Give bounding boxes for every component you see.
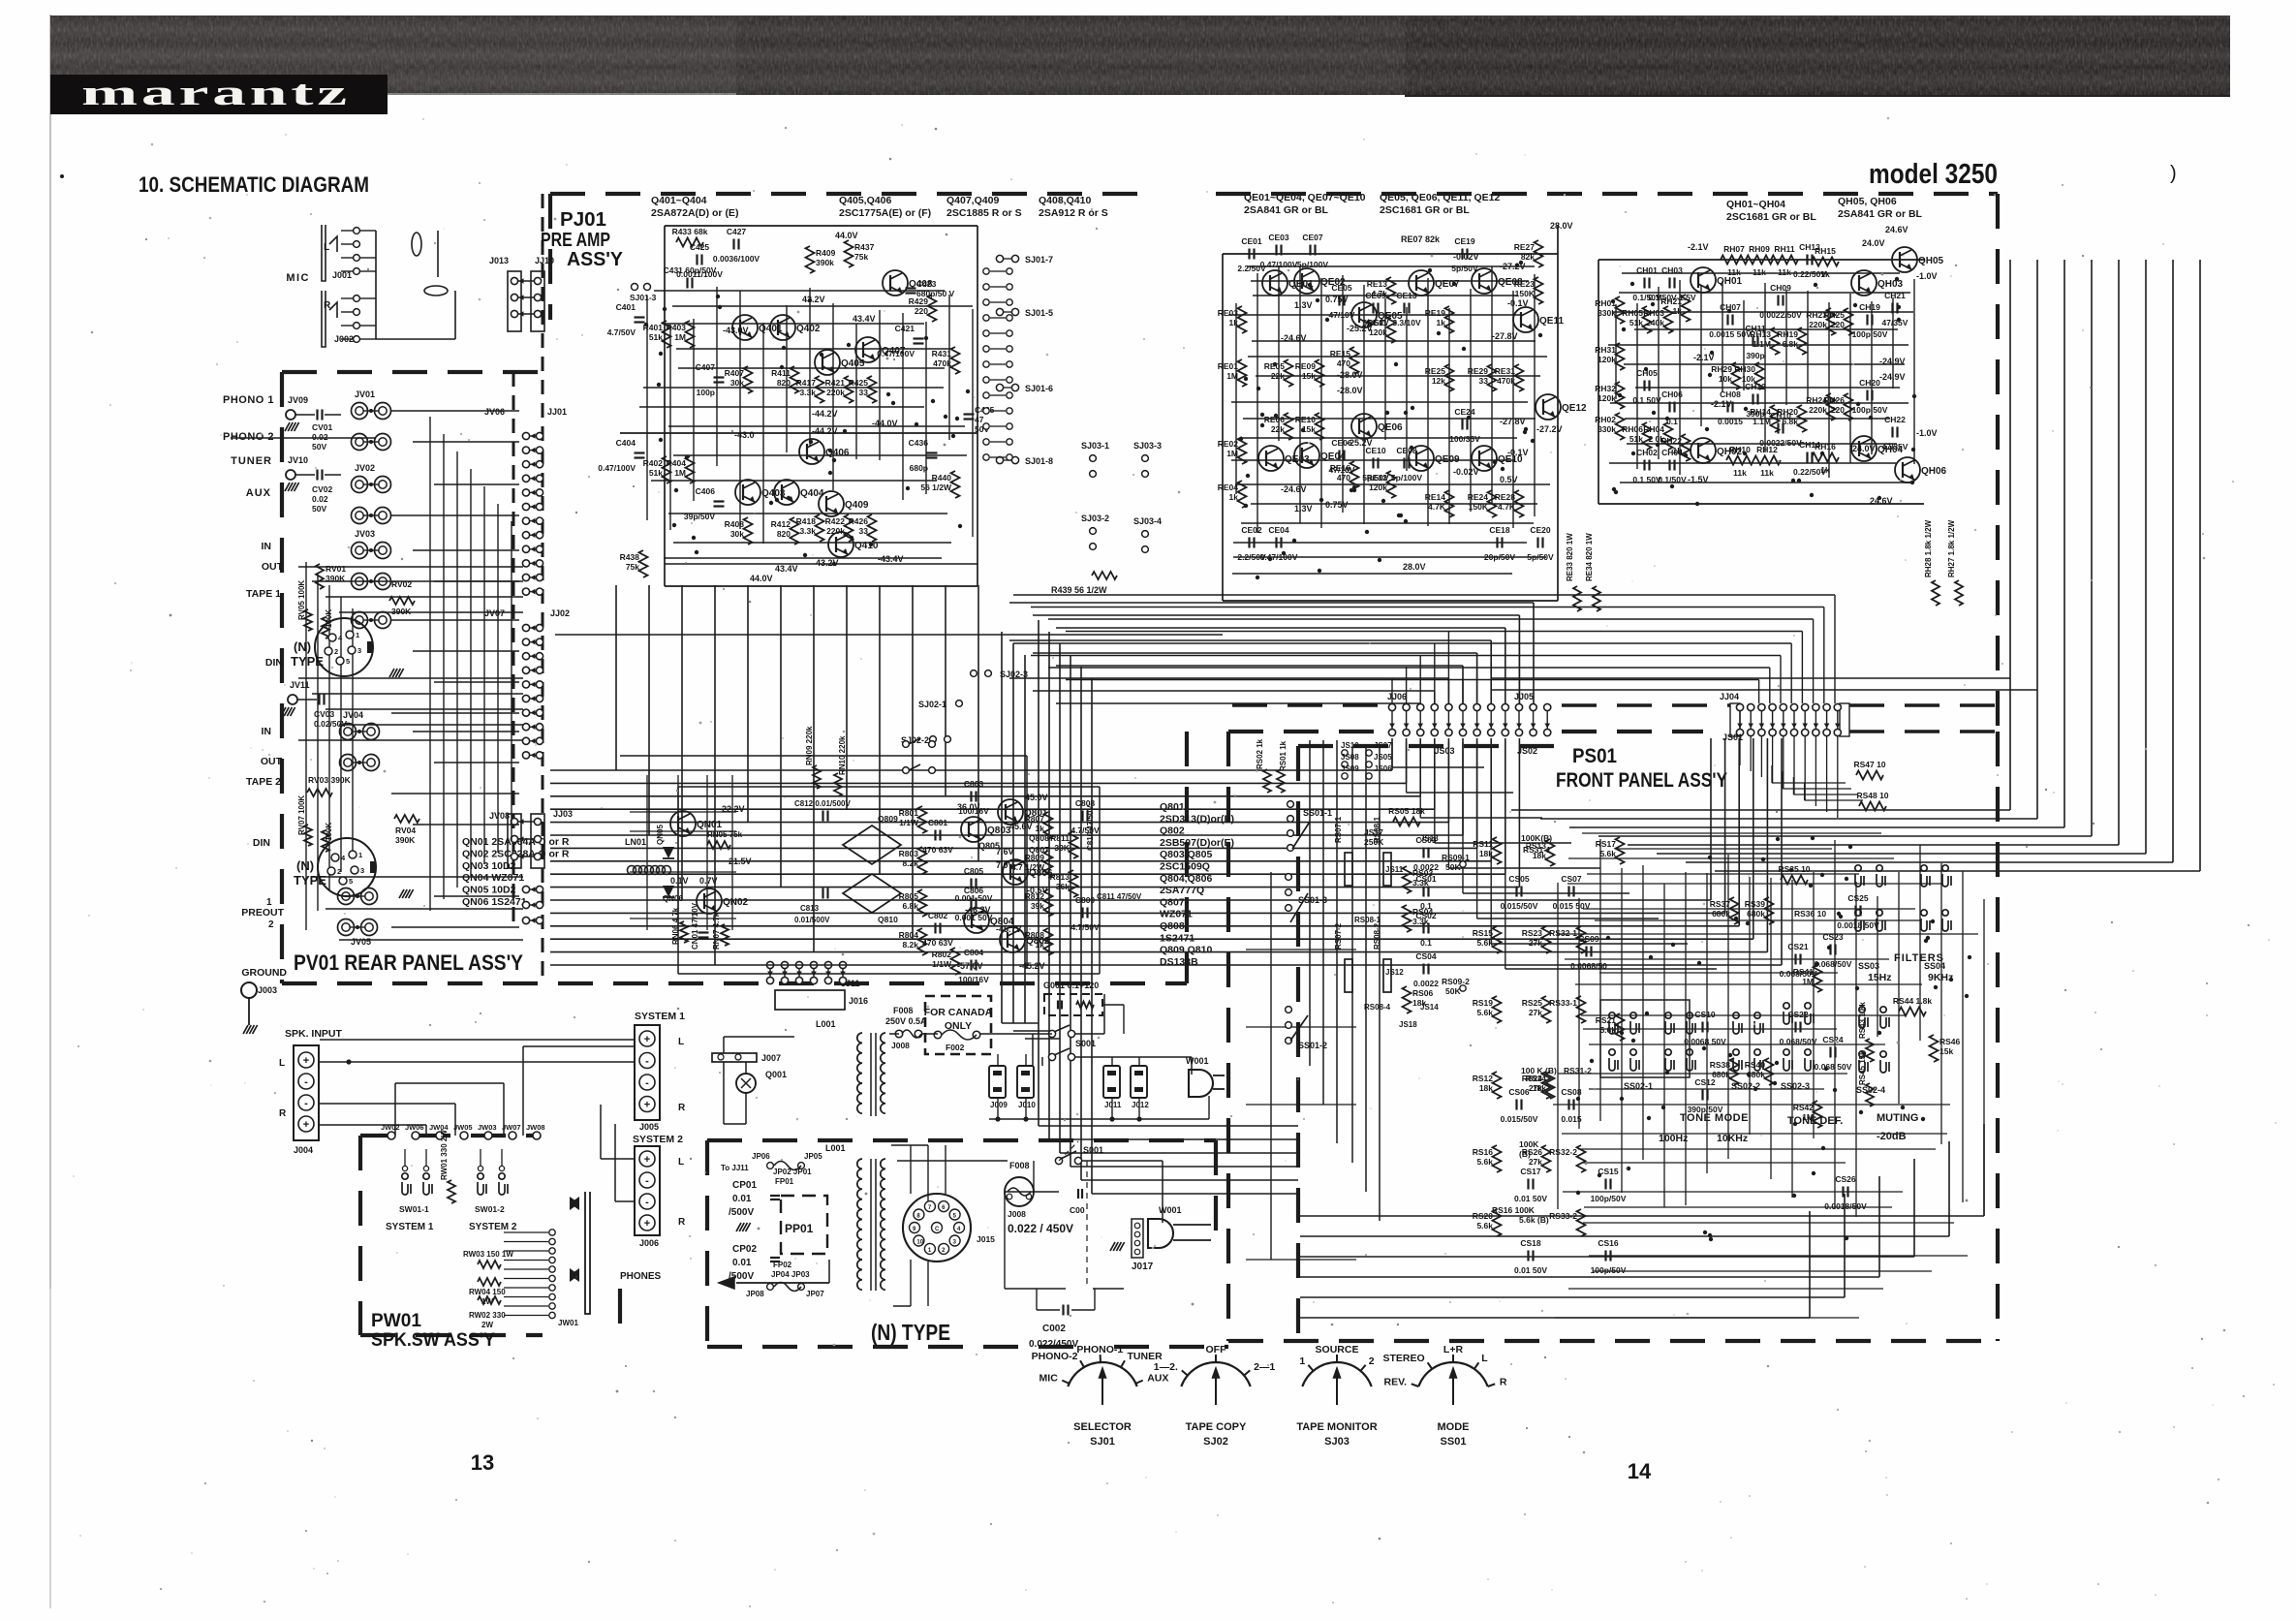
junction xyxy=(1462,347,1466,351)
svg-text:TAPE MONITOR: TAPE MONITOR xyxy=(1296,1421,1377,1433)
wire riser xyxy=(1804,736,1806,800)
svg-text:390p/50V: 390p/50V xyxy=(1688,1105,1723,1114)
junction xyxy=(1282,551,1286,555)
junction xyxy=(1877,1031,1881,1035)
wire xyxy=(312,693,523,695)
wire bus vertical inner xyxy=(1322,740,1324,1105)
svg-text:RN10 220k: RN10 220k xyxy=(838,735,847,775)
svg-text:(N) TYPE: (N) TYPE xyxy=(871,1320,950,1345)
svg-text:5.6k: 5.6k xyxy=(1476,938,1493,948)
junction xyxy=(1897,318,1901,322)
capacitor CE01 xyxy=(1248,249,1250,260)
svg-text:220k: 220k xyxy=(1809,405,1827,415)
svg-text:27k: 27k xyxy=(1529,1157,1542,1167)
supply block outline xyxy=(678,786,1100,788)
svg-text:390K: 390K xyxy=(391,607,412,616)
connector contact pair xyxy=(1502,703,1508,710)
svg-text:RS36 10: RS36 10 xyxy=(1794,909,1826,919)
junction xyxy=(869,543,873,546)
svg-text:1: 1 xyxy=(356,631,359,639)
junction xyxy=(1452,282,1456,286)
junction xyxy=(951,434,955,438)
headphone amp rail xyxy=(1598,259,1924,261)
svg-text:0.22/50V: 0.22/50V xyxy=(1793,467,1826,477)
resistor RS26 xyxy=(1542,1145,1551,1172)
resistor RN05 75k xyxy=(707,841,730,849)
junction xyxy=(1810,493,1814,497)
tape1 resistor RV05 RV06 rotated labels xyxy=(304,609,312,631)
connector contact pair xyxy=(1515,703,1522,710)
wire xyxy=(1706,873,1708,1173)
svg-text:240k: 240k xyxy=(1646,318,1664,327)
wire xyxy=(326,708,523,710)
svg-text:R803: R803 xyxy=(899,849,919,858)
wire xyxy=(1612,311,1913,313)
switch SS01-3 xyxy=(1286,874,1292,881)
svg-text:0.1: 0.1 xyxy=(1420,901,1432,911)
svg-text:-24.6V: -24.6V xyxy=(1281,484,1307,494)
svg-text:FP02: FP02 xyxy=(773,1261,792,1269)
svg-text:QE11: QE11 xyxy=(1539,316,1564,327)
junction xyxy=(716,295,720,298)
bridge rectifier Q809 xyxy=(843,826,901,864)
wire xyxy=(1251,280,1529,282)
wire riser xyxy=(1826,736,1828,812)
svg-text:RS33-2: RS33-2 xyxy=(1549,1211,1577,1221)
resistor RS02 1k rotated xyxy=(1263,769,1271,793)
wire bus xyxy=(1033,652,1477,654)
svg-text:33: 33 xyxy=(859,526,869,536)
svg-text:SYSTEM 1: SYSTEM 1 xyxy=(386,1222,434,1232)
svg-text:0.068 50V: 0.068 50V xyxy=(1815,1062,1852,1072)
svg-text:RS08-4: RS08-4 xyxy=(1364,1003,1391,1012)
svg-text:1: 1 xyxy=(1299,1355,1305,1367)
wire drop JJ06 xyxy=(1490,742,1492,944)
wire xyxy=(391,619,519,621)
junction xyxy=(1656,443,1660,447)
svg-text:RS43 1.8k: RS43 1.8k xyxy=(1858,1002,1867,1039)
PS01 dashed right edge xyxy=(1996,732,2000,1341)
svg-text:C002: C002 xyxy=(1042,1324,1066,1334)
junction xyxy=(1702,1046,1706,1050)
wire xyxy=(391,410,519,412)
junction xyxy=(1365,530,1369,534)
connector contact pair xyxy=(1823,703,1830,710)
svg-text:24.0V: 24.0V xyxy=(1862,238,1885,248)
volume pot RS08-1 xyxy=(1383,853,1391,886)
resistor RS19 xyxy=(1493,996,1502,1023)
junction xyxy=(1897,305,1901,309)
resistor R418 xyxy=(816,514,824,542)
junction xyxy=(1538,333,1542,337)
connector contact pair xyxy=(781,961,788,968)
wire bus long xyxy=(1013,642,1791,644)
wire xyxy=(1583,908,1915,910)
junction xyxy=(1814,283,1817,287)
svg-text:56 1/2W: 56 1/2W xyxy=(920,483,952,492)
resistor RH02 xyxy=(1616,413,1625,440)
svg-text:L001: L001 xyxy=(825,1143,846,1153)
resistor RH15 xyxy=(1812,258,1839,266)
svg-text:MUTING: MUTING xyxy=(1877,1112,1918,1124)
svg-text:J003: J003 xyxy=(258,985,277,995)
ground JO17 xyxy=(1110,1242,1115,1251)
svg-text:PHONO-1: PHONO-1 xyxy=(1076,1344,1123,1355)
junction xyxy=(695,550,698,554)
junction xyxy=(1257,387,1260,390)
resistor RE15 xyxy=(1350,347,1359,374)
svg-text:JV10: JV10 xyxy=(288,455,308,465)
resistor RE04 xyxy=(1238,481,1247,508)
svg-text:Q801: Q801 xyxy=(1160,801,1185,813)
svg-text:100/35V: 100/35V xyxy=(1449,434,1480,444)
svg-text:C802: C802 xyxy=(928,911,948,920)
svg-text:RH28 1.8k 1/2W: RH28 1.8k 1/2W xyxy=(1924,519,1933,577)
wire vertical xyxy=(497,504,499,853)
svg-text:CS06: CS06 xyxy=(1508,1087,1530,1097)
svg-text:JS08: JS08 xyxy=(1341,753,1359,762)
page edge line xyxy=(49,15,51,1289)
switch group SS02-4 xyxy=(1859,1007,1868,1028)
PW01 speaker switch dashed outline xyxy=(358,1136,362,1335)
wire xyxy=(662,323,924,325)
svg-text:0.0036/100V: 0.0036/100V xyxy=(713,254,760,264)
svg-text:R425: R425 xyxy=(849,378,869,388)
svg-text:JW02: JW02 xyxy=(381,1123,400,1132)
connector contact pair xyxy=(1813,703,1819,710)
volume pot RS07-1 xyxy=(1345,853,1352,886)
svg-text:(N): (N) xyxy=(294,639,311,654)
wire xyxy=(809,288,811,447)
resistor R807 xyxy=(1044,812,1053,839)
wire bus long xyxy=(1013,594,1835,596)
resistor RH05 xyxy=(1643,306,1652,333)
junction xyxy=(1411,406,1414,410)
wire xyxy=(1658,287,1660,459)
wire bus xyxy=(1009,639,1491,641)
junction xyxy=(644,323,648,327)
wire riser xyxy=(1447,632,1449,703)
transistor QH02 xyxy=(1691,438,1716,463)
svg-text:+: + xyxy=(644,1218,650,1230)
transistor Q410 xyxy=(828,532,853,557)
svg-text:Q405,Q406: Q405,Q406 xyxy=(839,195,891,206)
svg-text:QE06: QE06 xyxy=(1378,422,1403,433)
svg-text:R438: R438 xyxy=(620,552,640,562)
connector contact pair xyxy=(522,695,529,701)
wire xyxy=(1913,279,1915,464)
svg-text:RS06: RS06 xyxy=(1412,988,1434,998)
wire bus xyxy=(1009,602,1534,604)
svg-text:8.2k: 8.2k xyxy=(902,858,918,868)
svg-text:RV01: RV01 xyxy=(326,564,346,574)
svg-text:AUX: AUX xyxy=(1147,1372,1168,1384)
resistor RH20 xyxy=(1798,405,1807,432)
connector contact pair xyxy=(522,724,529,731)
wire bus vertical short xyxy=(1024,655,1026,1023)
svg-text:CN01 47/10V: CN01 47/10V xyxy=(691,902,699,950)
wire xyxy=(1228,314,1522,316)
wire xyxy=(902,313,904,500)
junction xyxy=(1708,1233,1712,1237)
wire xyxy=(434,895,519,897)
jack RCA pair xyxy=(338,919,355,936)
svg-text:RS19: RS19 xyxy=(1473,998,1494,1008)
wire xyxy=(673,542,951,544)
wire xyxy=(298,677,523,679)
junction xyxy=(966,389,970,393)
wire bus long xyxy=(1048,618,1814,620)
junction xyxy=(1352,488,1356,492)
wire xyxy=(413,549,519,551)
svg-text:-2.1V: -2.1V xyxy=(1688,242,1709,252)
wire xyxy=(1663,884,1665,1207)
wire bus right margin xyxy=(2091,260,2093,836)
svg-text:L: L xyxy=(324,242,329,253)
wire riser xyxy=(1837,736,1839,818)
capacitor CE19 xyxy=(1461,249,1463,260)
preamp rail bottom xyxy=(665,585,977,587)
resistor RE16 xyxy=(1350,461,1359,488)
svg-text:4.7/50V: 4.7/50V xyxy=(607,327,636,337)
capacitor C801 xyxy=(934,830,936,841)
svg-text:820: 820 xyxy=(777,378,791,388)
capacitor CS01 xyxy=(1422,887,1424,897)
svg-text:50V: 50V xyxy=(312,442,326,452)
AC outlets J011 J012 xyxy=(1103,1066,1120,1098)
svg-text:To JJ11: To JJ11 xyxy=(721,1164,749,1172)
wire xyxy=(1243,418,1536,420)
wire drop xyxy=(945,585,946,796)
wire xyxy=(298,739,523,741)
wire xyxy=(1252,340,1536,342)
junction xyxy=(803,553,807,557)
capacitor CH11 xyxy=(1752,336,1753,347)
rotary switch SJ01 xyxy=(1068,1362,1136,1386)
svg-text:RS15: RS15 xyxy=(1473,928,1494,938)
junction xyxy=(915,422,918,426)
svg-text:model 3250: model 3250 xyxy=(1869,159,1998,190)
capacitor CS04 xyxy=(1422,964,1424,975)
wire xyxy=(1406,307,1408,471)
svg-text:-: - xyxy=(304,1076,308,1088)
switch group SS02-3 xyxy=(1784,1003,1792,1024)
connector contact pair xyxy=(1530,703,1536,710)
svg-text:WZ071: WZ071 xyxy=(1160,909,1193,920)
svg-text:RE07 82k: RE07 82k xyxy=(1401,234,1441,244)
transistor QE09 xyxy=(1409,446,1434,471)
svg-text:27k: 27k xyxy=(1529,1083,1542,1093)
connector J016 box xyxy=(775,990,845,1010)
svg-text:QN06 1S2471: QN06 1S2471 xyxy=(462,896,527,908)
svg-text:-: - xyxy=(645,1197,649,1208)
capacitor C435 xyxy=(964,413,975,415)
terminal ladder right of preamp xyxy=(983,268,989,274)
junction xyxy=(1410,446,1413,450)
svg-text:0.0022: 0.0022 xyxy=(1413,979,1439,988)
junction xyxy=(1606,936,1610,940)
svg-text:0.0068/50: 0.0068/50 xyxy=(1570,961,1607,971)
svg-text:PRE AMP: PRE AMP xyxy=(541,230,610,251)
ground CP mid xyxy=(736,1223,741,1231)
svg-text:R418: R418 xyxy=(796,516,817,526)
rotated resistor RH28 xyxy=(1932,580,1939,606)
resistor RS06 xyxy=(1403,986,1412,1013)
svg-text:C404: C404 xyxy=(616,438,636,448)
svg-text:2SA872A(D) or (E): 2SA872A(D) or (E) xyxy=(651,207,738,219)
svg-text:J013: J013 xyxy=(489,256,509,265)
svg-text:SS01: SS01 xyxy=(1441,1436,1467,1448)
svg-text:C801: C801 xyxy=(928,818,948,827)
svg-text:RS25: RS25 xyxy=(1522,998,1543,1008)
wire xyxy=(1578,898,1580,1129)
wire xyxy=(1384,298,1386,440)
svg-text:-0.1V: -0.1V xyxy=(1507,448,1529,457)
connector contact pair xyxy=(1431,703,1438,710)
svg-text:RS33-1: RS33-1 xyxy=(1549,998,1577,1008)
svg-text:250K: 250K xyxy=(1364,837,1384,847)
wire xyxy=(1578,1148,1936,1150)
resistor RS13 xyxy=(1546,839,1555,866)
junction xyxy=(828,449,832,452)
wire xyxy=(1231,401,1528,403)
svg-text:C423: C423 xyxy=(916,279,937,289)
svg-text:RS07-1: RS07-1 xyxy=(1334,816,1343,843)
junction xyxy=(1708,856,1712,859)
svg-text:+: + xyxy=(644,1100,650,1111)
svg-text:LN01: LN01 xyxy=(625,837,646,847)
junction xyxy=(1645,1012,1649,1015)
wire xyxy=(1589,1255,1968,1257)
transistor Q407 xyxy=(855,337,881,362)
svg-text:QH03: QH03 xyxy=(1877,279,1904,290)
wire xyxy=(678,367,945,369)
svg-text:CS10: CS10 xyxy=(1694,1010,1716,1019)
junction xyxy=(1576,1097,1580,1101)
capacitor CN01 47/10V xyxy=(698,931,709,933)
svg-text:JS14: JS14 xyxy=(1420,1003,1439,1012)
transistor Q802 xyxy=(1000,927,1025,952)
capacitor CE06 xyxy=(1338,451,1340,461)
svg-text:15Hz: 15Hz xyxy=(1868,972,1892,983)
svg-text:CH09: CH09 xyxy=(1770,283,1791,293)
svg-text:CE07: CE07 xyxy=(1302,233,1323,242)
resistor RE10 xyxy=(1316,413,1324,440)
svg-text:5: 5 xyxy=(349,877,353,886)
svg-text:RV07 100K: RV07 100K xyxy=(297,795,306,835)
junction xyxy=(1746,921,1750,925)
svg-text:JS07: JS07 xyxy=(1374,741,1392,750)
capacitor CH10 xyxy=(1777,423,1779,434)
svg-text:TUNER: TUNER xyxy=(1128,1351,1164,1362)
jack RCA pair xyxy=(338,888,355,905)
resistor R805 xyxy=(918,889,927,917)
capacitor C406 xyxy=(714,500,725,502)
svg-text:3: 3 xyxy=(357,646,361,655)
junction xyxy=(1268,557,1272,561)
svg-text:RH30: RH30 xyxy=(1734,364,1755,374)
junction xyxy=(1709,1237,1713,1241)
resistor RS32-2 xyxy=(1577,1145,1586,1172)
header bar xyxy=(50,16,2230,97)
junction xyxy=(1665,1071,1669,1075)
junction xyxy=(1670,484,1674,488)
svg-text:CE19: CE19 xyxy=(1454,236,1475,246)
svg-text:CV03: CV03 xyxy=(314,709,335,719)
junction xyxy=(1695,502,1699,506)
svg-text:R: R xyxy=(678,1217,686,1228)
svg-text:330k: 330k xyxy=(1598,424,1616,434)
svg-text:5.6k: 5.6k xyxy=(1599,849,1616,858)
junction xyxy=(1614,490,1618,494)
svg-text:0.01 50V: 0.01 50V xyxy=(1514,1265,1547,1275)
svg-text:390p: 390p xyxy=(1746,351,1764,360)
wire nested corner xyxy=(1300,1276,1879,1278)
jack JV04 pair xyxy=(340,724,357,740)
svg-text:2SB507(D)or(E): 2SB507(D)or(E) xyxy=(1160,837,1234,849)
capacitor CE04 xyxy=(1275,538,1277,548)
svg-text:5p/100V: 5p/100V xyxy=(1391,473,1422,483)
connector contact pair xyxy=(522,517,529,524)
PJ01 dashed left edge xyxy=(548,194,552,320)
svg-text:0.22/50V: 0.22/50V xyxy=(1793,269,1826,279)
svg-text:SW01-1: SW01-1 xyxy=(399,1204,429,1214)
connector contact pair xyxy=(522,475,529,482)
connector contact pair xyxy=(766,961,773,968)
svg-text:36.0V: 36.0V xyxy=(957,802,980,812)
svg-text:220: 220 xyxy=(1831,320,1845,329)
junction xyxy=(1644,367,1648,371)
wire drop JJ06 xyxy=(1447,742,1449,868)
svg-text:0.022/450V: 0.022/450V xyxy=(1029,1339,1078,1350)
junction xyxy=(1912,394,1916,398)
wire xyxy=(1568,1288,1883,1290)
voltage selector socket J015 xyxy=(903,1194,971,1262)
svg-text:J004: J004 xyxy=(294,1145,313,1155)
resistor R811 xyxy=(1070,831,1078,858)
svg-text:R801: R801 xyxy=(899,808,919,818)
svg-text:0.015/50V: 0.015/50V xyxy=(1501,1114,1538,1124)
svg-text:2SA912 R or S: 2SA912 R or S xyxy=(1039,207,1108,219)
bridge rectifier Q810 xyxy=(843,874,901,913)
svg-text:J015: J015 xyxy=(977,1234,995,1244)
svg-text:RS20: RS20 xyxy=(1473,1211,1494,1221)
connector contact pair xyxy=(511,294,517,300)
bottom rail upper section xyxy=(989,1118,1209,1120)
PP01 label box xyxy=(781,1196,827,1254)
wire xyxy=(1247,265,1535,267)
svg-text:C805: C805 xyxy=(964,866,984,876)
wires to system2 xyxy=(600,1105,602,1159)
wire bus vertical inner xyxy=(1309,740,1311,1066)
connector contact pair xyxy=(522,737,529,744)
junction xyxy=(1697,961,1701,965)
resistor RS12 xyxy=(1493,1072,1502,1099)
svg-text:220: 220 xyxy=(915,306,928,316)
resistor RS24 xyxy=(1542,1072,1551,1099)
PN01 dashed right edge xyxy=(1185,732,1189,983)
capacitor CH06 xyxy=(1668,402,1670,413)
svg-text:RS07-2: RS07-2 xyxy=(1334,922,1343,950)
svg-text:1M: 1M xyxy=(1802,1112,1814,1122)
wire xyxy=(326,596,523,598)
wire xyxy=(1749,877,1751,1135)
junction xyxy=(1797,479,1801,483)
junction xyxy=(1631,452,1635,455)
svg-text:14: 14 xyxy=(1628,1459,1652,1483)
svg-text:-28.0V: -28.0V xyxy=(1337,370,1363,380)
junction xyxy=(1921,1117,1925,1121)
